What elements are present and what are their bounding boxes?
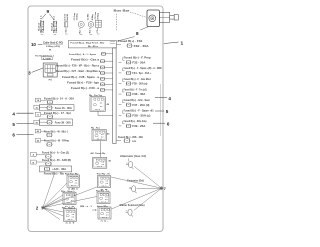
stud terminal T1 (38, 15, 45, 33)
relay B label (61, 190, 75, 193)
cavity 17 (35, 112, 40, 116)
cavity A (31, 152, 37, 156)
svg-text:Fused B(+) - Gas a: Fused B(+) - Gas a (71, 59, 100, 61)
svg-text:5: 5 (12, 122, 15, 127)
svg-text:o n: o n (75, 183, 77, 185)
svg-text:Nut: Nut (64, 28, 67, 32)
svg-text:Fused B(+) - Htd - Seat: Fused B(+) - Htd - Seat (124, 99, 150, 102)
fuse row F33 (119, 57, 152, 64)
svg-text:Nut 1: Nut 1 (79, 28, 82, 34)
relay R2 (92, 130, 110, 141)
svg-text:7: 7 (164, 187, 166, 191)
svg-text:+A/C - 30A: +A/C - 30A (52, 168, 66, 171)
relay F' label (97, 205, 109, 208)
fuse row F25 (left) (71, 59, 113, 63)
wire (fan) (43, 187, 98, 208)
svg-text:o n: o n (105, 199, 107, 201)
svg-text:C2 Blk: C2 Blk (87, 13, 89, 20)
svg-text:6: 6 (12, 133, 15, 138)
relay E' (97, 192, 110, 204)
wire (right fan) (111, 177, 162, 188)
svg-text:Fused B(+) - 14 - A - 20A: Fused B(+) - 14 - A - 20A (44, 98, 74, 101)
relay slot rect 1 (39, 105, 74, 111)
callout 2 (left fan) (36, 205, 45, 210)
cavity 40 (35, 129, 40, 133)
relay E' label (96, 191, 110, 193)
fuse row F28 (left) (62, 77, 113, 81)
wire (fan) (43, 208, 64, 212)
label under rect 3 (44, 174, 65, 176)
svg-text:F32 - 40A: F32 - 40A (134, 45, 149, 48)
callout 10 (31, 42, 42, 47)
relay B (63, 192, 76, 208)
svg-text:Nut 2: Nut 2 (89, 27, 92, 33)
starter terminal (125, 209, 133, 216)
relay D label (90, 152, 106, 155)
svg-text:o n: o n (100, 106, 102, 108)
svg-text:n a: n a (106, 212, 108, 214)
node: cable stud label (43, 41, 63, 51)
svg-text:a n - a: a n - a (97, 166, 102, 168)
wire (right fan) (134, 188, 162, 210)
svg-text:RM - a - 1: RM - a - 1 (80, 206, 93, 208)
relay R1 (90, 97, 110, 112)
callout 3 (28, 68, 43, 76)
svg-text:Fused B(+) - F - Abs Mod: Fused B(+) - F - Abs Mod (124, 78, 152, 81)
alternator terminal (126, 158, 134, 168)
fuse row F32 (top) (116, 41, 149, 48)
svg-text:Cable-Stud-(C-PG): Cable-Stud-(C-PG) (43, 41, 63, 44)
svg-text:a n - a: a n - a (71, 185, 76, 187)
fuse row F30 (left) (71, 88, 113, 92)
relay R2 label (91, 128, 101, 130)
svg-text:a n - a: a n - a (102, 217, 107, 219)
wire (right fan) (137, 187, 162, 189)
svg-text:Fused B(+) - 40 - M(+) 1: Fused B(+) - 40 - M(+) 1 (44, 130, 69, 133)
wire (fan) (43, 199, 63, 208)
svg-text:3: 3 (28, 71, 31, 76)
relay D (93, 157, 112, 168)
callout 5 (left) (12, 122, 33, 127)
fuse row F34 (119, 67, 162, 75)
svg-text:Fused B(+) - F30 - a: Fused B(+) - F30 - a (71, 88, 100, 90)
svg-text:Fused B(+) - F. Pmp: Fused B(+) - F. Pmp (124, 58, 152, 60)
svg-text:Fused B(+) - F - Spare +61: Fused B(+) - F - Spare +61 (124, 111, 155, 113)
svg-text:Fused B(+) - A - Gas (2): Fused B(+) - A - Gas (2) (42, 152, 69, 155)
callout 7 (164, 187, 166, 191)
svg-text:F37 - 20A (d): F37 - 20A (d) (132, 104, 149, 107)
wire (fan) (43, 195, 63, 208)
relay slot rect 3 (40, 166, 72, 172)
callout 1 (164, 40, 184, 46)
svg-text:F39 - 20A: F39 - 20A (132, 125, 145, 128)
svg-text:Strtr Rly: Strtr Rly (97, 205, 109, 208)
svg-text:Fused B(+) - IBS - 40A: Fused B(+) - IBS - 40A (118, 136, 143, 139)
fuse row F26 (left) (56, 66, 113, 70)
callout 6 (left) (12, 133, 33, 138)
svg-text:F36 - 40A: F36 - 40A (132, 93, 145, 96)
ring terminal C2 (87, 13, 93, 33)
svg-text:n a: n a (101, 134, 103, 136)
svg-text:a n - a: a n - a (101, 201, 106, 203)
svg-text:a n - a: a n - a (95, 109, 100, 111)
wire (right fan) (111, 188, 161, 209)
svg-text:n a: n a (72, 214, 74, 216)
fuse row F43 (IBS) (116, 136, 143, 143)
svg-text:16-Way: 16-Way (77, 13, 79, 21)
fuse row F29 (left) (67, 82, 113, 86)
svg-text:2-Way (+PG): 2-Way (+PG) (46, 46, 60, 48)
svg-text:Fan Rly - Hi: Fan Rly - Hi (97, 174, 110, 176)
wire (fan) (43, 208, 60, 220)
svg-text:C3 a: C3 a (97, 28, 99, 33)
svg-text:5: 5 (166, 109, 169, 114)
svg-text:Fused B(+) - 45 - F/Pmp: Fused B(+) - 45 - F/Pmp (44, 139, 70, 142)
node RM label (80, 206, 97, 211)
junction node (right fan) (160, 186, 164, 190)
svg-text:o n: o n (106, 183, 108, 185)
svg-text:Fan Rly - Lo: Fan Rly - Lo (96, 191, 110, 193)
bus bar (vertical) (113, 48, 116, 144)
wire (fan) (43, 197, 97, 208)
fuse block outline (PDC frame) (28, 6, 163, 232)
fuse row F36 (119, 89, 147, 96)
relay F' (98, 207, 111, 222)
svg-text:n a: n a (102, 162, 104, 164)
svg-text:Fused B(+) - 45 - AXB (B): Fused B(+) - 45 - AXB (B) (42, 159, 71, 162)
terminal base ticks (41, 33, 100, 36)
svg-text:Fused B(+) - A - 1 - Spare: Fused B(+) - A - 1 - Spare (69, 53, 97, 56)
svg-text:Bolt M6: Bolt M6 (66, 13, 69, 21)
fuse row F27 (left) (56, 70, 113, 75)
svg-text:Fused B(+) - F27 - Start - Sto: Fused B(+) - F27 - Start - Stop/Run a (56, 70, 101, 73)
svg-text:4-Way: 4-Way (91, 13, 94, 20)
svg-text:F38 - 30A (c): F38 - 30A (c) (132, 114, 150, 117)
fuse row cav40 (41, 130, 69, 137)
wire (right fan) (134, 166, 162, 188)
wire (fan) (43, 208, 64, 216)
svg-text:Rly - Strtr 1: Rly - Strtr 1 (61, 190, 75, 193)
svg-text:n a: n a (71, 197, 73, 199)
ground strap bolt (63, 13, 68, 32)
svg-text:9: 9 (46, 9, 49, 15)
wire (fan) (43, 172, 55, 208)
callout 6 (right) (153, 122, 170, 127)
svg-text:A/C Clutch Rly: A/C Clutch Rly (90, 152, 106, 155)
svg-text:Fuse 38 - 30A: Fuse 38 - 30A (55, 121, 71, 124)
wire relay R2 to relay D (99, 141, 101, 158)
cavity 14 (35, 98, 40, 102)
svg-text:Fused B(+) - F28 - Spare - a: Fused B(+) - F28 - Spare - a (62, 77, 100, 79)
svg-text:o n: o n (101, 136, 103, 138)
svg-text:Fused B(+) - F26 - I/P - B(+): Fused B(+) - F26 - I/P - B(+) - Run a (56, 66, 100, 68)
net label: Bus Bar (114, 8, 147, 30)
svg-text:4: 4 (168, 96, 171, 101)
wire (fan) (43, 183, 67, 208)
wire: callout 8 to bus bar (117, 37, 135, 42)
svg-text:n a -: n a - (101, 220, 110, 222)
svg-text:PG: PG (49, 80, 52, 82)
svg-text:n a: n a (75, 180, 77, 182)
callout 4 (right) (155, 96, 171, 101)
fuse row cav14 (41, 98, 75, 105)
svg-text:1: 1 (180, 40, 183, 46)
generator terminal (129, 186, 137, 193)
fuse row gas (36, 152, 69, 159)
fuse row F38 (119, 110, 155, 117)
cavity 45 (35, 139, 40, 143)
svg-text:F35 - 30A (a): F35 - 30A (a) (132, 83, 147, 86)
svg-text:Bus Bar: Bus Bar (114, 8, 131, 12)
connector C4 inset (43, 63, 57, 77)
fuse row F39 (119, 120, 148, 128)
svg-text:a n - a: a n - a (97, 139, 102, 141)
svg-text:a n - a: a n - a (102, 185, 107, 187)
fuse row cav45 (41, 139, 70, 146)
relay C (64, 209, 77, 225)
svg-text:B+ 40 a: B+ 40 a (88, 45, 99, 48)
cavity B (31, 160, 37, 164)
svg-text:4: 4 (12, 111, 15, 116)
svg-text:Alternator (Gas 4.0): Alternator (Gas 4.0) (120, 155, 146, 158)
connector C3 grid (95, 11, 101, 32)
ring terminal C1 (74, 12, 84, 33)
callout 9 (42, 9, 55, 20)
svg-text:o n: o n (72, 217, 74, 219)
svg-text:Fuse 16 - 30A: Fuse 16 - 30A (55, 107, 72, 110)
B+ feed bar (68, 41, 116, 48)
svg-text:Fused B(+) - F32: Fused B(+) - F32 (118, 41, 143, 43)
cavity 38 (34, 120, 39, 124)
fuse row cav17 (41, 113, 72, 119)
fuse row F35 (119, 78, 152, 86)
stud terminal T2 (51, 15, 58, 33)
svg-text:8-Way: 8-Way (98, 12, 100, 19)
svg-text:Fused B(+) - F - Trn (x2): Fused B(+) - F - Trn (x2) (124, 89, 147, 91)
alternator terminal label (120, 155, 146, 158)
callout 5 (right) (155, 109, 169, 114)
battery cable lug (160, 12, 179, 22)
svg-text:n a: n a (100, 103, 102, 105)
cavity 16 (34, 105, 39, 109)
callout 4 (left) (12, 111, 33, 116)
relay C label (62, 208, 76, 210)
svg-text:LGE: LGE (43, 58, 52, 60)
svg-text:F33 - 20A: F33 - 20A (132, 61, 145, 64)
relay D' label (97, 174, 110, 176)
callout 8 (136, 31, 139, 36)
svg-text:Fused B(+) - B(+) Feed - Bar: Fused B(+) - B(+) Feed - Bar (70, 43, 104, 45)
connector C4 label (35, 55, 55, 60)
svg-text:n a: n a (105, 197, 107, 199)
svg-text:10: 10 (31, 42, 36, 47)
starter terminal label (120, 204, 145, 207)
svg-text:n a: n a (106, 180, 108, 182)
fuse row (feed spare) (69, 52, 113, 56)
relay A label (65, 174, 79, 176)
svg-text:Fused B(+) - F29 - Ign: Fused B(+) - F29 - Ign (67, 82, 100, 84)
battery B+ stud terminal (147, 10, 160, 27)
generator terminal label (127, 180, 144, 183)
inner edge line (right) (160, 84, 162, 136)
svg-text:a n - a: a n - a (68, 219, 73, 221)
svg-text:Fused B(+) - Rdo Amp: Fused B(+) - Rdo Amp (124, 120, 148, 123)
relay R1 label (89, 95, 103, 97)
relay D' (98, 176, 111, 191)
svg-text:F34 - Spr - 40A +: F34 - Spr - 40A + (132, 72, 152, 75)
svg-text:6: 6 (167, 122, 170, 127)
wire relay R1 to bus (98, 111, 113, 115)
svg-text:o n: o n (106, 214, 108, 216)
fuse row axb (36, 159, 71, 166)
svg-text:8: 8 (136, 31, 139, 36)
wire: stud to callout 8 (140, 27, 148, 30)
svg-text:o n: o n (102, 164, 104, 166)
relay slot rect 2 (39, 119, 72, 126)
fuse row F37 (119, 99, 150, 107)
relay A (67, 175, 80, 191)
svg-text:Fused B(+) - F - Spare +(B) -: Fused B(+) - F - Spare +(B) - A - 4WD (124, 67, 162, 70)
svg-text:a n 1: a n 1 (66, 223, 75, 225)
svg-text:The Nmd(GT) am 1: The Nmd(GT) am 1 (35, 55, 55, 57)
